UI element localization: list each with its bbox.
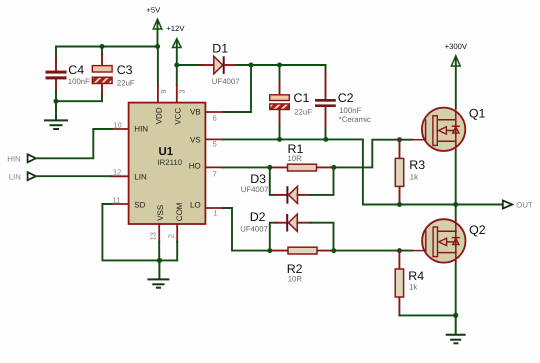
svg-text:COM: COM: [175, 202, 184, 221]
node VB junction: [249, 63, 254, 68]
svg-text:13: 13: [148, 232, 157, 240]
ground under U1: [148, 260, 168, 287]
capacitor C2: [315, 65, 371, 139]
wire VB riser to pin 6: [223, 65, 251, 112]
node OUT/Q1 source: [453, 202, 458, 207]
wire LO to R2: [222, 208, 270, 251]
ic U1 pin stubs: [111, 85, 224, 243]
svg-text:OUT: OUT: [516, 201, 533, 210]
diode D3 branch: [241, 167, 334, 203]
node R2 left: [267, 248, 272, 253]
ground under C4: [45, 101, 67, 129]
svg-text:UF4007: UF4007: [241, 185, 269, 194]
capacitor C4: [46, 47, 91, 102]
wire gate Q2: [334, 250, 413, 252]
svg-text:R4: R4: [408, 269, 424, 283]
wire R4 bottom link: [399, 314, 455, 316]
ic U1 body: [129, 103, 206, 224]
svg-text:11: 11: [113, 196, 121, 205]
svg-text:LIN: LIN: [134, 173, 147, 182]
svg-text:+12V: +12V: [166, 24, 185, 33]
svg-text:1k: 1k: [410, 173, 418, 182]
wire Q1 source down: [455, 150, 457, 205]
svg-text:SD: SD: [134, 200, 145, 209]
wire HIN to pin10: [36, 129, 112, 158]
node VSS/COM/SD junction: [157, 258, 162, 263]
svg-text:+5V: +5V: [146, 5, 161, 14]
svg-text:D1: D1: [212, 42, 228, 56]
wire D1 anode: [177, 64, 202, 66]
svg-text:HO: HO: [189, 162, 201, 171]
svg-text:VCC: VCC: [174, 108, 183, 125]
svg-text:7: 7: [213, 169, 217, 178]
svg-text:1k: 1k: [409, 283, 417, 292]
resistor R3: [395, 140, 425, 205]
svg-text:10R: 10R: [287, 154, 302, 163]
capacitor C3: [56, 47, 135, 102]
transistor Q1: [412, 107, 486, 151]
wire SD loop: [102, 204, 159, 260]
svg-text:VB: VB: [190, 108, 201, 117]
wire VSS down: [158, 242, 160, 261]
wire HO to R1: [222, 166, 270, 168]
node R1 left: [267, 165, 272, 170]
node C2 bottom on VS: [323, 137, 328, 142]
svg-text:3: 3: [178, 89, 187, 93]
svg-text:+300V: +300V: [445, 42, 468, 51]
wire gate Q1: [334, 140, 413, 168]
ic U1 labels: [134, 107, 200, 221]
svg-text:U1: U1: [159, 146, 174, 158]
svg-text:12: 12: [113, 168, 121, 177]
svg-text:IR2110: IR2110: [157, 158, 182, 167]
wire VS line: [222, 139, 502, 204]
wire top bus C4-C3-+5V: [56, 46, 158, 48]
svg-text:Q1: Q1: [469, 107, 486, 121]
diode D1: [201, 42, 240, 87]
node R4 top: [397, 248, 402, 253]
node R2 right: [331, 248, 336, 253]
node C1 top junction: [277, 63, 282, 68]
node R3 top: [397, 137, 402, 142]
svg-text:22uF: 22uF: [117, 79, 135, 88]
wire VCC riser: [176, 65, 178, 85]
svg-text:5: 5: [213, 140, 217, 149]
node C3 top junction: [100, 44, 105, 49]
svg-text:D3: D3: [250, 172, 266, 186]
capacitor C1: [270, 65, 313, 139]
svg-text:100nF: 100nF: [339, 106, 361, 115]
diode D2 branch: [240, 210, 333, 251]
wire VB bus: [237, 64, 326, 66]
terminal OUT: [503, 201, 533, 210]
wire LIN to pin12: [36, 175, 112, 177]
power +300V: [445, 42, 468, 108]
terminal LIN: [9, 172, 36, 181]
power +5V: [146, 5, 161, 46]
svg-text:VS: VS: [190, 135, 201, 144]
node +12V/VCC/D1 junction: [174, 63, 179, 68]
svg-text:C4: C4: [68, 63, 84, 77]
node C4 bottom junction: [54, 99, 59, 104]
resistor R4: [395, 251, 424, 316]
svg-text:LO: LO: [190, 201, 201, 210]
svg-text:HIN: HIN: [7, 154, 20, 163]
svg-text:UF4007: UF4007: [240, 225, 268, 234]
ground under Q2: [447, 315, 465, 343]
wire Q2 source down: [455, 261, 457, 315]
svg-text:HIN: HIN: [134, 125, 148, 134]
transistor Q2: [412, 219, 486, 262]
wire COM down: [159, 242, 177, 261]
svg-text:10R: 10R: [288, 274, 303, 283]
ic U1 pin numbers: [113, 89, 218, 240]
wire Q2 drain: [455, 205, 457, 222]
node C1 bottom on VS: [277, 137, 282, 142]
resistor R1: [270, 142, 334, 171]
svg-text:C2: C2: [338, 91, 354, 105]
node +5V/VDD junction: [155, 44, 160, 49]
svg-text:R3: R3: [409, 158, 425, 172]
svg-text:9: 9: [159, 89, 168, 93]
svg-text:D2: D2: [250, 210, 266, 224]
svg-text:Q2: Q2: [469, 223, 486, 237]
svg-text:VDD: VDD: [155, 107, 164, 124]
svg-text:10: 10: [113, 121, 121, 130]
svg-text:UF4007: UF4007: [212, 77, 240, 86]
svg-text:100nF: 100nF: [68, 77, 90, 86]
svg-text:2: 2: [166, 234, 175, 238]
wire VDD riser: [157, 47, 159, 86]
node R3 bottom: [397, 202, 402, 207]
terminal HIN: [7, 154, 36, 163]
svg-text:C1: C1: [294, 91, 310, 105]
svg-text:*Ceramic: *Ceramic: [339, 115, 371, 124]
power +12V: [166, 24, 185, 65]
node R1 right: [331, 165, 336, 170]
svg-text:C3: C3: [117, 63, 133, 77]
svg-text:VSS: VSS: [156, 205, 165, 221]
svg-text:LIN: LIN: [9, 172, 21, 181]
node Q2 source junction: [453, 313, 458, 318]
svg-text:1: 1: [213, 209, 217, 218]
resistor R2: [270, 247, 334, 283]
svg-text:6: 6: [213, 114, 217, 123]
svg-text:22uF: 22uF: [294, 107, 312, 116]
